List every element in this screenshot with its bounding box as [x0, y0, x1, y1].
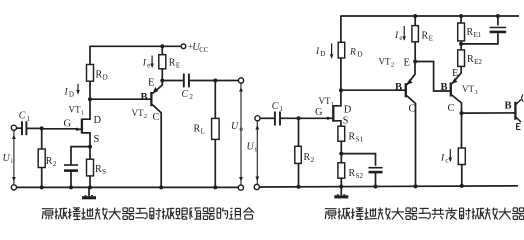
resistor RD (right): [338, 42, 345, 58]
svg-text:C: C: [448, 103, 455, 114]
wire R2 to ground rail (right): [298, 163, 300, 186]
label RE (left): [169, 58, 180, 70]
supply terminal +Ucc: [181, 44, 186, 49]
svg-text:2: 2: [53, 160, 57, 168]
junction CS/ground rail (right): [374, 185, 378, 189]
label RD (left): [96, 70, 108, 82]
svg-text:R: R: [467, 27, 474, 38]
svg-text:I: I: [142, 59, 147, 69]
junction VT3 collector node: [460, 111, 464, 115]
wire gate dot to channel (right): [328, 117, 333, 119]
svg-text:R: R: [467, 54, 474, 65]
svg-text:1: 1: [27, 115, 31, 123]
label R2 (left): [46, 156, 57, 168]
wire node to gate VT1 (right): [299, 117, 330, 119]
svg-text:R: R: [194, 124, 201, 135]
bypass capacitor CS (left): [64, 165, 78, 171]
svg-text:VT: VT: [132, 108, 144, 118]
label E (right VT2): [404, 58, 410, 69]
VT1 source lead: [82, 133, 90, 147]
svg-text:VT: VT: [319, 96, 331, 106]
junction output/RL (left): [213, 79, 217, 83]
voltage reference line Ui (left circuit): [12, 131, 16, 185]
wire S node to RS: [89, 147, 91, 160]
label E fragment (VT4, clipped): [517, 124, 521, 130]
resistor RS2: [338, 163, 345, 178]
top supply rail (right circuit): [340, 15, 519, 17]
svg-text:E: E: [429, 35, 433, 43]
wire RC to ground rail: [461, 165, 463, 186]
transistor VT4 base bar (cut off): [514, 102, 516, 120]
current arrow Ie (left): [150, 56, 154, 69]
svg-text:S1: S1: [356, 136, 364, 144]
svg-text:1: 1: [81, 110, 84, 117]
label ID (right): [315, 47, 325, 58]
label B (left VT2): [141, 92, 148, 103]
resistor RC (unlabeled, Ic branch): [458, 148, 465, 165]
svg-text:R: R: [96, 70, 103, 81]
svg-text:c: c: [445, 157, 448, 165]
emitter node junction (left): [160, 79, 164, 83]
label VT2 (left): [132, 108, 148, 120]
label Ui (right): [247, 142, 257, 154]
label B (right VT2): [395, 82, 402, 93]
junction CS/ground rail: [69, 185, 73, 189]
svg-text:U: U: [231, 121, 239, 132]
wire RE to emitter node (right): [414, 42, 416, 62]
VT2 collector lead (right): [407, 96, 416, 187]
svg-text:E: E: [148, 78, 154, 89]
output terminal Uo- (left): [238, 185, 243, 190]
wire R2 to ground rail: [41, 168, 43, 188]
wire RS1 to RS2: [340, 141, 342, 163]
svg-text:U: U: [3, 153, 11, 164]
resistor RE2: [458, 50, 465, 67]
capacitor C1 (left): [22, 121, 26, 135]
label VT3: [462, 84, 478, 96]
input terminal Ui- (right circuit): [254, 184, 259, 189]
svg-text:D: D: [94, 115, 102, 126]
wire node down to R2: [41, 128, 43, 149]
label +Ucc: [188, 42, 209, 54]
wire rail to RE (right): [414, 16, 416, 26]
resistor RE1: [458, 23, 465, 41]
wire gate dot to channel: [77, 128, 82, 130]
transistor VT2 base bar (left): [150, 92, 152, 106]
resistor RE (right): [412, 26, 419, 42]
svg-text:o: o: [239, 125, 243, 133]
label Ic: [440, 154, 448, 165]
svg-text:G: G: [64, 119, 72, 130]
svg-text:D: D: [344, 105, 352, 116]
transistor VT1 channel bar (left JFET): [81, 119, 83, 134]
resistor RS1: [338, 126, 345, 141]
svg-text:R: R: [422, 31, 429, 42]
junction RE1/RE2/cap: [459, 42, 463, 46]
resistor RS (left): [87, 159, 94, 176]
transistor VT1 channel bar (right JFET): [332, 105, 334, 122]
svg-text:R: R: [95, 164, 102, 175]
svg-text:3: 3: [474, 89, 477, 96]
svg-text:C: C: [272, 101, 279, 112]
label RE2: [467, 54, 482, 66]
label Uo (left): [231, 121, 243, 133]
junction rail/RE (left): [160, 44, 164, 48]
VT1 source lead (right): [333, 121, 341, 126]
label E (VT3): [452, 68, 458, 79]
bypass capacitor across RE1: [461, 16, 506, 44]
current arrow ID (left): [76, 84, 80, 95]
ground rail (left circuit): [17, 186, 239, 188]
svg-text:e: e: [147, 62, 150, 70]
svg-text:C: C: [19, 111, 26, 122]
transistor VT2 base bar (right): [405, 83, 407, 97]
label E (left VT2): [148, 78, 154, 89]
current arrow Ic: [449, 149, 453, 162]
wire VT3 collector node to VT4 base: [462, 112, 515, 114]
label VT2 (right): [379, 57, 395, 69]
resistor R2 (right): [295, 146, 302, 163]
svg-text:I: I: [64, 88, 69, 98]
svg-text:D: D: [69, 91, 74, 99]
transistor VT3 base bar: [450, 82, 452, 96]
input terminal Ui- (left circuit): [11, 185, 16, 190]
wire RL node to output terminal: [215, 80, 238, 82]
current arrow ID (right): [330, 43, 334, 58]
junction rail/bypass cap (right): [496, 14, 500, 18]
label C fragment (VT4, clipped): [522, 95, 524, 102]
wire input to C1 (right): [260, 117, 275, 119]
label S (left VT1): [94, 134, 100, 145]
label G (left VT1): [64, 119, 72, 130]
wire RL to ground rail: [214, 139, 216, 187]
svg-text:S: S: [94, 134, 100, 145]
VT2 emitter lead with arrow (right): [407, 62, 415, 85]
caption left: 源极接地放大器与射极跟随器的组合: [42, 208, 254, 220]
svg-text:2: 2: [144, 113, 147, 120]
wire rail to RE1: [460, 16, 462, 23]
junction R2/ground rail (right): [297, 185, 301, 189]
junction RS1/RS2/cap (right): [339, 152, 343, 156]
capacitor C2 (left): [184, 74, 189, 88]
label D (left VT1): [94, 115, 102, 126]
svg-text:B: B: [395, 82, 402, 93]
gate connection dot VT1 (right): [326, 117, 329, 120]
junction RC/ground rail: [460, 184, 464, 188]
label RS2: [349, 168, 364, 180]
wire RD to top rail: [89, 46, 91, 64]
svg-text:B: B: [141, 92, 148, 103]
junction VT2 collector/ground rail (right): [414, 184, 418, 188]
svg-text:C: C: [153, 112, 160, 123]
label VT1 (left): [69, 105, 85, 117]
junction RS/ground rail: [88, 185, 92, 189]
label S (right VT1): [343, 116, 349, 127]
svg-text:R: R: [349, 168, 356, 179]
svg-text:I: I: [394, 31, 399, 41]
capacitor C1 (right): [275, 112, 280, 126]
junction RS2/ground rail (right): [339, 185, 343, 189]
node junction C1/R2: [40, 126, 44, 130]
junction R2/ground rail: [40, 185, 44, 189]
wire CS to ground rail (right): [375, 172, 377, 186]
svg-text:e: e: [399, 34, 402, 42]
label Ie (right): [394, 31, 402, 42]
svg-text:E1: E1: [474, 31, 482, 39]
label RE (right): [422, 31, 433, 43]
svg-text:S2: S2: [356, 172, 364, 180]
VT1 drain lead (right): [333, 58, 341, 106]
input terminal Ui+ (right circuit): [255, 116, 260, 121]
svg-text:D: D: [320, 50, 325, 58]
label RL (left): [194, 124, 205, 136]
wire C1 to node (right): [280, 117, 299, 119]
svg-text:C: C: [182, 89, 189, 100]
wire VT2 emitter to VT3 base: [415, 62, 450, 92]
wire drain node to VT2 base: [90, 98, 151, 100]
label VT1 (right): [319, 96, 335, 108]
svg-text:C: C: [409, 104, 416, 115]
label Ie (left): [142, 59, 150, 70]
wire input to C1: [17, 127, 23, 129]
label RS (left): [95, 164, 106, 176]
output terminal Uo+ (left): [238, 78, 243, 83]
svg-text:i: i: [255, 146, 257, 154]
svg-text:VT: VT: [379, 57, 391, 67]
label ID (left): [64, 88, 74, 99]
wire node to gate of VT1: [42, 128, 78, 130]
label Ui (left circuit): [3, 153, 13, 165]
wire C2 to RL node: [189, 80, 215, 82]
svg-text:R: R: [169, 58, 176, 69]
resistor RD (left): [87, 65, 94, 82]
svg-text:B: B: [505, 100, 512, 111]
VT3 collector lead: [452, 95, 462, 113]
junction RL/ground rail: [213, 185, 217, 189]
wire node down to RL: [214, 81, 216, 119]
svg-text:D: D: [358, 51, 363, 59]
svg-text:1: 1: [331, 101, 334, 108]
svg-text:D: D: [103, 74, 108, 82]
resistor RE (left): [159, 55, 166, 69]
VT4 emitter/collector stubs (cut off): [515, 100, 521, 123]
resistor R2 (left): [38, 149, 45, 168]
wire CS to ground rail: [70, 171, 72, 188]
svg-text:S: S: [102, 168, 106, 176]
svg-text:R: R: [349, 132, 356, 143]
wire node down to R2 (right): [298, 118, 300, 146]
label D (right VT1): [344, 105, 352, 116]
VT2 emitter lead with arrow (left): [152, 81, 162, 94]
svg-text:CC: CC: [199, 47, 209, 54]
svg-text:i: i: [11, 157, 13, 165]
top supply rail (left circuit): [89, 45, 181, 47]
label C (VT3): [448, 103, 455, 114]
bypass capacitor CS (right): [369, 168, 383, 172]
svg-text:R: R: [304, 152, 311, 163]
wire S node to bypass capacitor: [71, 147, 90, 165]
svg-text:I: I: [315, 47, 320, 57]
wire drain node to VT2 base (right): [341, 89, 405, 91]
svg-text:E: E: [452, 68, 458, 79]
svg-text:U: U: [247, 142, 255, 153]
wire RE1 to RE2: [460, 41, 462, 50]
svg-text:R: R: [349, 48, 356, 58]
svg-text:L: L: [201, 128, 205, 136]
svg-text:G: G: [315, 107, 323, 118]
junction C1/R2 (right): [297, 116, 301, 120]
ground symbol (right circuit): [334, 187, 348, 199]
svg-text:2: 2: [189, 93, 193, 101]
wire C1 to node G-net: [26, 127, 41, 129]
wire RE to emitter node (left): [161, 69, 163, 81]
wire RS2 to ground rail (right): [340, 178, 342, 186]
label RD (right): [349, 48, 363, 59]
input terminal Ui+ (left circuit): [11, 125, 16, 130]
wire collector node down to RC: [461, 113, 463, 148]
ground rail (right circuit): [259, 186, 518, 187]
svg-text:1: 1: [280, 105, 284, 113]
caption right: 源极接地放大器与共发射极放大器: [325, 208, 524, 220]
svg-text:E2: E2: [474, 58, 482, 66]
junction rail/RE1 (right): [459, 14, 463, 18]
label C (right VT2): [409, 104, 416, 115]
label C1 (right): [272, 101, 284, 113]
svg-text:B: B: [441, 82, 448, 93]
label RE1: [467, 27, 482, 39]
svg-text:2: 2: [311, 156, 315, 164]
junction VT2 collector/ground rail: [159, 185, 163, 189]
label G (right VT1): [315, 107, 323, 118]
svg-text:R: R: [46, 156, 53, 167]
junction drain/base (right): [339, 88, 343, 92]
label C (left VT2): [153, 112, 160, 123]
source node junction VT1 (left): [88, 145, 92, 149]
svg-text:E: E: [176, 62, 180, 70]
wire RS to ground rail: [89, 176, 91, 188]
label C2 (left): [182, 89, 194, 101]
label B (VT4): [505, 100, 512, 111]
emitter node junction VT2 (right): [413, 60, 417, 64]
voltage reference line Ui (right): [255, 121, 259, 184]
svg-text:VT: VT: [69, 105, 81, 115]
svg-text:2: 2: [391, 62, 394, 69]
junction drain/base (left): [88, 97, 92, 101]
voltage reference line Uo (left): [239, 83, 243, 185]
wire emitter node to C2: [162, 80, 184, 82]
svg-text:VT: VT: [462, 84, 474, 94]
label R2 (right): [304, 152, 315, 164]
label B (VT3): [441, 82, 448, 93]
wire RS1 bottom node to cap (right): [341, 154, 375, 166]
svg-text:S: S: [343, 116, 349, 127]
VT1 drain lead: [82, 81, 90, 119]
gate connection dot VT1: [76, 128, 79, 131]
wire RD to top rail (right): [340, 16, 342, 42]
label RS1: [349, 132, 364, 144]
wire rail to RE (left): [161, 46, 163, 54]
ground symbol (left circuit): [82, 187, 96, 199]
VT2 collector lead (left): [152, 105, 161, 188]
svg-text:E: E: [404, 58, 410, 69]
VT3 emitter lead with arrow: [452, 66, 462, 83]
resistor RL (left): [212, 118, 220, 139]
current arrow Ie (right): [402, 26, 406, 41]
junction rail/RE (right): [413, 14, 417, 18]
label C1 (left): [19, 111, 31, 123]
svg-text:I: I: [440, 154, 445, 164]
